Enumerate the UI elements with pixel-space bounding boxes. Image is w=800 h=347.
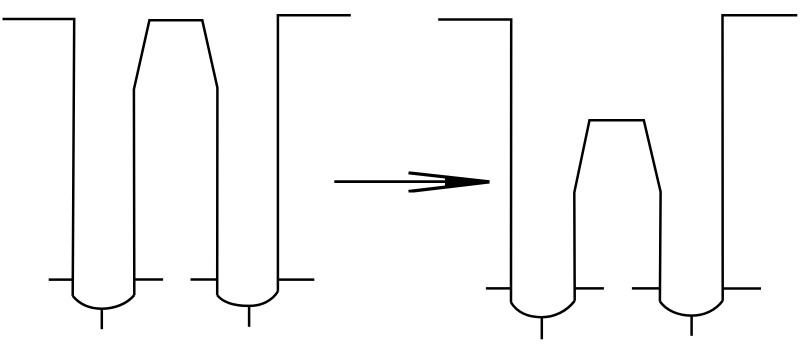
right profile: slot2 right wall and right top land bbox=[723, 15, 798, 301]
right profile: top land and slot1 left wall bbox=[438, 20, 511, 303]
arrow head lower barb bbox=[409, 182, 490, 192]
right profile: slot1 right wall, center tooth flanks and top bbox=[574, 120, 660, 301]
left profile: top land and slot1 left wall bbox=[3, 19, 75, 296]
left profile: slot1 centerline tick bbox=[101, 309, 104, 330]
left profile: slot1 right wall, center tooth flanks and top bbox=[134, 20, 218, 295]
arrow shaft bbox=[334, 180, 462, 183]
arrow head solid tip bbox=[445, 175, 490, 188]
left profile: slot2 centerline tick bbox=[248, 306, 251, 327]
right profile: slot2 centerline tick bbox=[690, 316, 693, 336]
right profile: slot2 root arc bbox=[660, 301, 723, 316]
left profile: slot1 root arc bbox=[73, 295, 135, 309]
left profile: root-line tick right of slot2 bbox=[278, 278, 314, 281]
arrow head upper barb bbox=[409, 173, 490, 182]
right profile: root-line tick left of slot1 bbox=[486, 287, 511, 290]
right profile: slot1 root arc bbox=[511, 301, 575, 317]
left profile: slot2 right wall and right top land bbox=[278, 15, 351, 291]
right profile: root-line tick left of slot2 bbox=[632, 287, 660, 290]
right profile: root-line tick right of slot2 bbox=[723, 287, 761, 290]
right profile: root-line tick right of slot1 bbox=[575, 287, 604, 290]
left profile: root-line tick left of slot1 bbox=[49, 278, 74, 281]
left profile: root-line tick left of slot2 bbox=[191, 278, 218, 281]
right profile: slot1 centerline tick bbox=[541, 317, 544, 339]
left profile: root-line tick right of slot1 bbox=[134, 278, 163, 281]
left profile: slot2 root arc bbox=[217, 291, 278, 306]
